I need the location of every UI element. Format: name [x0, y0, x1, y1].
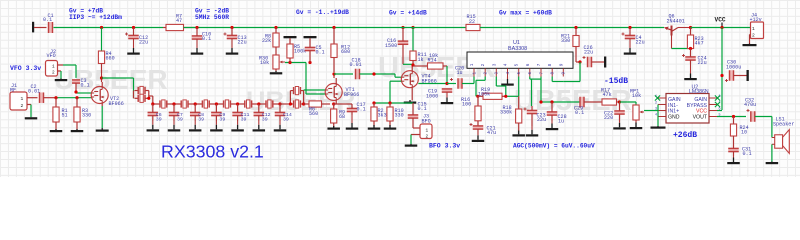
node VCC-C30: [720, 74, 723, 77]
svg-text:1: 1: [426, 129, 429, 134]
resistor R15 22: [466, 14, 480, 31]
ground C12: [127, 39, 140, 55]
wire VT1 drain: [334, 74, 336, 84]
wire U2 gnd pin: [657, 116, 659, 118]
svg-text:6: 6: [526, 63, 531, 66]
svg-text:22u: 22u: [698, 60, 707, 66]
capacitor C4 22u: [622, 28, 645, 46]
svg-text:Gv = +14dB: Gv = +14dB: [389, 9, 427, 16]
node C2-R1: [54, 96, 57, 99]
capacitor C19 1500: [385, 28, 408, 65]
svg-text:UB5EER: UB5EER: [54, 64, 168, 95]
svg-text:2: 2: [21, 103, 24, 109]
wire top rail segment 1: [54, 27, 164, 29]
node out-R14: [445, 82, 448, 85]
wire C2 to gate: [44, 97, 92, 99]
crystal XT9: [290, 100, 303, 108]
capacitor C14 39: [275, 104, 292, 123]
svg-text:Gv = -1..+19dB: Gv = -1..+19dB: [296, 9, 349, 16]
svg-text:10: 10: [741, 130, 747, 136]
svg-text:2N4401: 2N4401: [667, 18, 685, 24]
connector J1 RF: [10, 83, 27, 110]
resistor R8 22k: [262, 28, 279, 56]
ground J1: [25, 117, 38, 119]
ground RP1: [630, 120, 643, 129]
svg-text:Speaker: Speaker: [773, 121, 794, 127]
wire Q6 base: [672, 48, 691, 50]
svg-text:BA3308: BA3308: [508, 46, 527, 52]
svg-text:7: 7: [537, 63, 542, 66]
wire C32 to speaker: [755, 117, 772, 138]
crystal X4: [195, 100, 216, 108]
capacitor C32 470u: [744, 98, 756, 122]
node Q6 collector: [689, 26, 692, 29]
svg-text:39: 39: [219, 117, 225, 123]
wire speaker to ground: [771, 144, 773, 161]
transistor VT4 BF966: [401, 71, 436, 88]
resistor R9 68: [331, 104, 346, 127]
svg-text:22u: 22u: [238, 40, 247, 46]
terminal C30: [747, 70, 749, 81]
svg-text:39: 39: [283, 117, 289, 123]
wire VT4 drain net: [403, 64, 413, 71]
svg-text:39: 39: [156, 117, 162, 123]
ground C11: [231, 121, 244, 132]
svg-text:0.1: 0.1: [575, 110, 584, 116]
capacitor C24 22u: [682, 49, 707, 67]
resistor R2 3k3: [371, 103, 387, 126]
node rail-C19: [401, 26, 404, 29]
svg-text:22u: 22u: [636, 40, 645, 46]
svg-text:100k: 100k: [294, 49, 306, 55]
wire filter out to VT1 gate2: [304, 89, 326, 92]
wire R14 to out line: [446, 66, 448, 84]
svg-text:+26dB: +26dB: [673, 131, 697, 140]
wire C20 to U1 pin1: [462, 77, 474, 84]
svg-text:47u: 47u: [487, 130, 496, 136]
node VT2 drain: [100, 76, 103, 79]
svg-text:2: 2: [481, 63, 486, 66]
wire rail to R4: [101, 28, 103, 52]
svg-text:1: 1: [752, 26, 755, 32]
terminal C26: [604, 57, 606, 68]
svg-text:10k: 10k: [260, 60, 269, 66]
wire C15 to J3: [413, 121, 420, 128]
node R23 base: [689, 47, 692, 50]
wire U1 pin7 net: [541, 77, 550, 103]
label Gv stage3: [296, 9, 349, 16]
capacitor C1 0.1: [43, 13, 54, 33]
wire C18 to VT4 gate1: [360, 74, 402, 77]
label Gv stage1: [69, 8, 122, 21]
svg-text:+12v: +12v: [750, 17, 762, 23]
svg-text:2: 2: [752, 33, 755, 39]
wire U1 pin3 net: [496, 77, 506, 97]
node chain C7: [172, 102, 175, 105]
node R19 left: [476, 95, 479, 98]
wire J1 pin1: [27, 97, 38, 99]
resistor R16 100: [461, 96, 481, 126]
label Gv stage2: [195, 8, 229, 21]
crystal X6: [238, 100, 259, 108]
svg-text:220: 220: [604, 115, 613, 121]
svg-text:330k: 330k: [500, 110, 512, 116]
svg-text:-15dB: -15dB: [604, 77, 628, 86]
capacitor C10 0.1: [192, 28, 211, 43]
node R21 out: [578, 60, 581, 63]
svg-text:1u: 1u: [457, 70, 463, 76]
node R3 tap: [75, 96, 78, 99]
resistor R18 330k: [500, 96, 522, 130]
node VT1 source: [332, 102, 335, 105]
svg-text:660: 660: [106, 56, 115, 62]
ground R30: [270, 71, 283, 74]
transistor Q6 2N4401: [664, 14, 691, 49]
ground C12: [253, 121, 265, 132]
no-connect U2 gain right: [715, 95, 720, 100]
wire J1 pin2 to ground: [27, 105, 31, 118]
resistor R17 47k: [584, 88, 620, 106]
ground U1 pin4: [501, 77, 514, 86]
ground C31: [727, 156, 740, 164]
svg-text:0.01: 0.01: [350, 62, 362, 68]
svg-text:330: 330: [395, 113, 404, 119]
capacitor C13 22u: [224, 28, 247, 46]
capacitor C22 220: [604, 102, 625, 121]
svg-text:4k7: 4k7: [695, 41, 704, 47]
ground J3: [405, 144, 418, 147]
wire U1 pin6 net: [530, 77, 541, 107]
ground C22: [613, 121, 626, 130]
wire drain to filter: [102, 78, 134, 98]
wire U2 in- gnd: [657, 105, 659, 127]
svg-text:AGC(500mV) = 6uV..60uV: AGC(500mV) = 6uV..60uV: [513, 143, 595, 150]
node chain C14: [278, 102, 281, 105]
capacitor C12 39: [254, 104, 271, 123]
resistor R23 4k7: [687, 28, 703, 49]
wire U2 vcc: [717, 110, 722, 112]
svg-text:2: 2: [655, 102, 657, 106]
node rail-R8: [274, 26, 277, 29]
no-connect U2 bypass: [715, 102, 720, 107]
potentiometer RP1 10k: [630, 89, 644, 121]
resistor R4 660: [98, 51, 114, 78]
terminal above R5: [284, 36, 297, 38]
ground C8: [189, 121, 202, 132]
capacitor C26 22u: [583, 45, 594, 67]
wire out pair joins: [290, 91, 303, 104]
capacitor C30 1000u: [725, 60, 741, 83]
svg-text:100k: 100k: [478, 91, 490, 97]
capacitor C20 1u: [450, 66, 464, 89]
resistor R1 51: [53, 98, 68, 130]
capacitor C23 22u: [524, 106, 547, 126]
svg-text:1u: 1u: [558, 119, 564, 125]
node audio p7: [539, 100, 542, 103]
node R19 right: [504, 95, 507, 98]
wire U1 pin5 net: [506, 77, 519, 97]
svg-text:680: 680: [341, 49, 350, 55]
svg-text:2: 2: [52, 71, 55, 76]
svg-text:BF966: BF966: [109, 101, 124, 107]
resistor R11 1k: [410, 28, 427, 65]
label Gv max: [499, 9, 552, 16]
wire C30 to terminal: [734, 75, 747, 77]
wire U1 pin2 net: [476, 77, 485, 97]
antenna input terminal: [32, 22, 34, 33]
wire VT4 source: [411, 88, 413, 101]
svg-text:Gv max = +60dB: Gv max = +60dB: [499, 9, 552, 16]
capacitor C8 39: [190, 104, 204, 123]
svg-text:9: 9: [559, 63, 564, 66]
wire source node to C17: [334, 103, 352, 105]
wire VCC down to U2: [721, 28, 723, 111]
resistor R14 10k: [413, 53, 447, 69]
wire out to C20: [447, 83, 456, 85]
node R2 tap: [372, 72, 375, 75]
label VFO: [10, 65, 41, 72]
ground R1: [50, 129, 63, 132]
svg-text:330: 330: [561, 38, 570, 44]
svg-text:1500: 1500: [385, 43, 397, 49]
svg-text:22u: 22u: [537, 117, 546, 123]
capacitor C17 0.1: [347, 102, 366, 115]
svg-text:0.1: 0.1: [357, 107, 366, 113]
node rail-C12: [132, 26, 135, 29]
node chain C11: [236, 102, 239, 105]
node chain C8: [194, 102, 197, 105]
wire C26 to terminal: [592, 61, 605, 63]
transistor VT2 BF966: [91, 87, 124, 107]
svg-text:39: 39: [177, 117, 183, 123]
svg-text:5MHz 560R: 5MHz 560R: [195, 14, 229, 21]
node wiper-R5: [288, 61, 311, 64]
ground R10: [384, 125, 397, 130]
svg-text:5: 5: [515, 63, 520, 66]
wire bias line: [374, 102, 413, 104]
svg-text:10k: 10k: [632, 93, 641, 99]
ground LS1: [766, 162, 779, 165]
svg-text:0.1: 0.1: [743, 151, 752, 157]
wire top rail segment 3: [480, 27, 664, 29]
node C28 tap: [550, 100, 553, 103]
svg-text:22k: 22k: [262, 38, 271, 44]
svg-text:VFO 3.3v: VFO 3.3v: [10, 65, 41, 72]
svg-text:LM386N: LM386N: [689, 89, 709, 95]
IC U1 BA3308: [467, 40, 573, 68]
svg-text:0.01: 0.01: [28, 89, 40, 95]
svg-text:330: 330: [82, 113, 91, 119]
svg-text:1: 1: [470, 63, 475, 66]
ground C21: [472, 129, 485, 142]
transistor VT1 BF966: [325, 84, 359, 101]
U1 pins 1-9: [470, 63, 567, 76]
svg-text:1000u: 1000u: [726, 65, 741, 71]
wire crystal pair joins: [134, 91, 153, 105]
wire chain to out pair: [280, 103, 290, 105]
wire input to C1: [34, 27, 47, 29]
crystal XT8: [290, 87, 303, 95]
ground C4: [624, 39, 637, 55]
svg-text:1: 1: [52, 65, 55, 70]
ground C24: [684, 64, 697, 80]
svg-text:BFO: BFO: [422, 119, 431, 125]
wire C3 to VT2 gate2: [76, 83, 91, 93]
capacitor C28 1u: [547, 102, 567, 125]
wire J4 pin2 ground: [750, 35, 751, 44]
ground C9: [210, 121, 223, 132]
svg-text:3k3: 3k3: [378, 113, 387, 119]
label +26dB: [673, 131, 697, 140]
svg-text:VCC: VCC: [715, 17, 726, 24]
svg-text:0.1: 0.1: [316, 50, 325, 56]
capacitor C7 39: [169, 104, 183, 123]
wire R21 to U1 vcc: [563, 62, 580, 82]
wire RP1 wiper to U2: [644, 110, 658, 112]
wire R17 to RP1: [620, 102, 637, 105]
wire top rail segment 2: [184, 27, 338, 29]
capacitor C18 0.01: [350, 58, 362, 80]
svg-text:39: 39: [198, 117, 204, 123]
resistor R19 100k: [478, 87, 506, 100]
svg-text:0.1: 0.1: [418, 106, 427, 112]
capacitor C3 0.1: [72, 78, 90, 89]
svg-text:470u: 470u: [744, 102, 756, 108]
wire top rail segment 2b: [337, 27, 466, 29]
potentiometer R30 10k: [259, 55, 285, 71]
resistor R7 47: [163, 14, 197, 31]
resistor R6 560: [304, 101, 330, 117]
wire R30 wiper AGC: [285, 63, 325, 95]
wire audio line: [550, 101, 580, 103]
svg-text:BF966: BF966: [344, 92, 359, 98]
capacitor C11 39: [232, 104, 249, 123]
svg-text:BFO 3.3v: BFO 3.3v: [429, 143, 460, 150]
svg-text:68: 68: [339, 114, 345, 120]
resistor R5 100k: [287, 38, 306, 62]
svg-text:VFO: VFO: [47, 53, 56, 59]
svg-text:8: 8: [548, 63, 553, 66]
svg-text:22: 22: [469, 19, 475, 25]
capacitor C2 0.01: [28, 84, 44, 103]
ground U2: [651, 126, 666, 129]
capacitor C9 39: [211, 104, 225, 123]
crystal XT1: [135, 86, 149, 94]
node R17 out: [618, 100, 621, 103]
svg-text:39: 39: [262, 117, 268, 123]
svg-text:22u: 22u: [139, 40, 148, 46]
wire VT2 drain: [101, 78, 104, 87]
ground R9: [327, 126, 340, 130]
no-connect U2 gain left: [655, 95, 660, 100]
svg-text:1: 1: [21, 96, 24, 102]
wire J2 pin1 to C3: [58, 65, 77, 78]
connector J4 +12v: [750, 13, 764, 39]
capacitor C6 39: [148, 104, 162, 123]
wire VT4 out: [418, 83, 447, 85]
resistor R3 330: [74, 98, 91, 130]
resistor R24 10: [730, 117, 748, 148]
svg-text:0.1: 0.1: [202, 36, 211, 42]
wire VT1 source: [335, 101, 337, 105]
wire J2 pin2 to ground: [58, 71, 62, 79]
svg-text:RX3308 v2.1: RX3308 v2.1: [161, 142, 264, 162]
capacitor C12 22u: [125, 28, 148, 46]
svg-text:100: 100: [462, 101, 471, 107]
node rail-C4: [628, 26, 631, 29]
ground C6: [147, 121, 160, 132]
ground C17: [346, 115, 359, 130]
svg-text:39: 39: [241, 117, 247, 123]
node VCC: [720, 26, 723, 29]
ground C7: [168, 121, 181, 132]
crystal X2: [153, 100, 174, 108]
node chain C9: [215, 102, 218, 105]
ground R3: [71, 129, 84, 132]
ground J4: [743, 44, 757, 47]
capacitor C15 0.1: [408, 102, 427, 122]
node R24 tap: [732, 115, 735, 118]
svg-text:2: 2: [426, 135, 429, 140]
label Gv stage4: [389, 9, 427, 16]
svg-text:3: 3: [492, 63, 497, 66]
ground C10: [191, 39, 204, 55]
U2 pin stubs: [655, 95, 721, 118]
node VT1 drain net: [332, 72, 335, 75]
capacitor C31 0.1: [728, 147, 751, 158]
label -15dB: [604, 77, 628, 86]
crystal X3: [174, 100, 195, 108]
ground C13: [226, 39, 239, 55]
connector J2 VFO: [46, 49, 58, 76]
wire VT4 gate2 bias: [390, 81, 401, 103]
svg-text:3: 3: [655, 108, 657, 112]
ground C19b: [441, 92, 454, 104]
node rail-C13: [230, 26, 233, 29]
node rail-R4: [100, 26, 103, 29]
wire U1 pin8 net: [552, 77, 563, 82]
ground R18: [512, 131, 525, 137]
crystal X5: [216, 100, 237, 108]
ground C23: [526, 126, 539, 137]
capacitor C21 47u: [470, 123, 497, 136]
speaker LS1: [772, 117, 795, 154]
capacitor C29 0.1: [574, 97, 584, 116]
node rail-R12: [332, 26, 335, 29]
wire drain line: [334, 73, 353, 75]
label BFO: [429, 143, 460, 150]
watermark: [54, 52, 632, 117]
connector J3 BFO: [420, 114, 432, 140]
label AGC: [513, 143, 595, 150]
crystal X7: [259, 100, 280, 108]
svg-text:VOUT: VOUT: [693, 115, 708, 121]
capacitor C19b 1000: [426, 89, 452, 100]
svg-text:10k: 10k: [429, 53, 438, 59]
ground R2: [368, 125, 381, 130]
wire rail to VCC: [691, 27, 751, 29]
resistor R21 330: [561, 28, 580, 63]
IC U2 LM386N: [666, 85, 709, 124]
svg-text:4: 4: [504, 63, 509, 66]
node bias R10: [388, 101, 391, 104]
svg-text:IIP3 ~= +12dBm: IIP3 ~= +12dBm: [69, 14, 122, 21]
svg-text:4: 4: [655, 114, 657, 118]
svg-text:1k: 1k: [418, 57, 424, 63]
wire J3 pin2 to ground: [411, 135, 420, 145]
node filter out: [289, 102, 305, 105]
node rail-R11: [411, 26, 414, 29]
